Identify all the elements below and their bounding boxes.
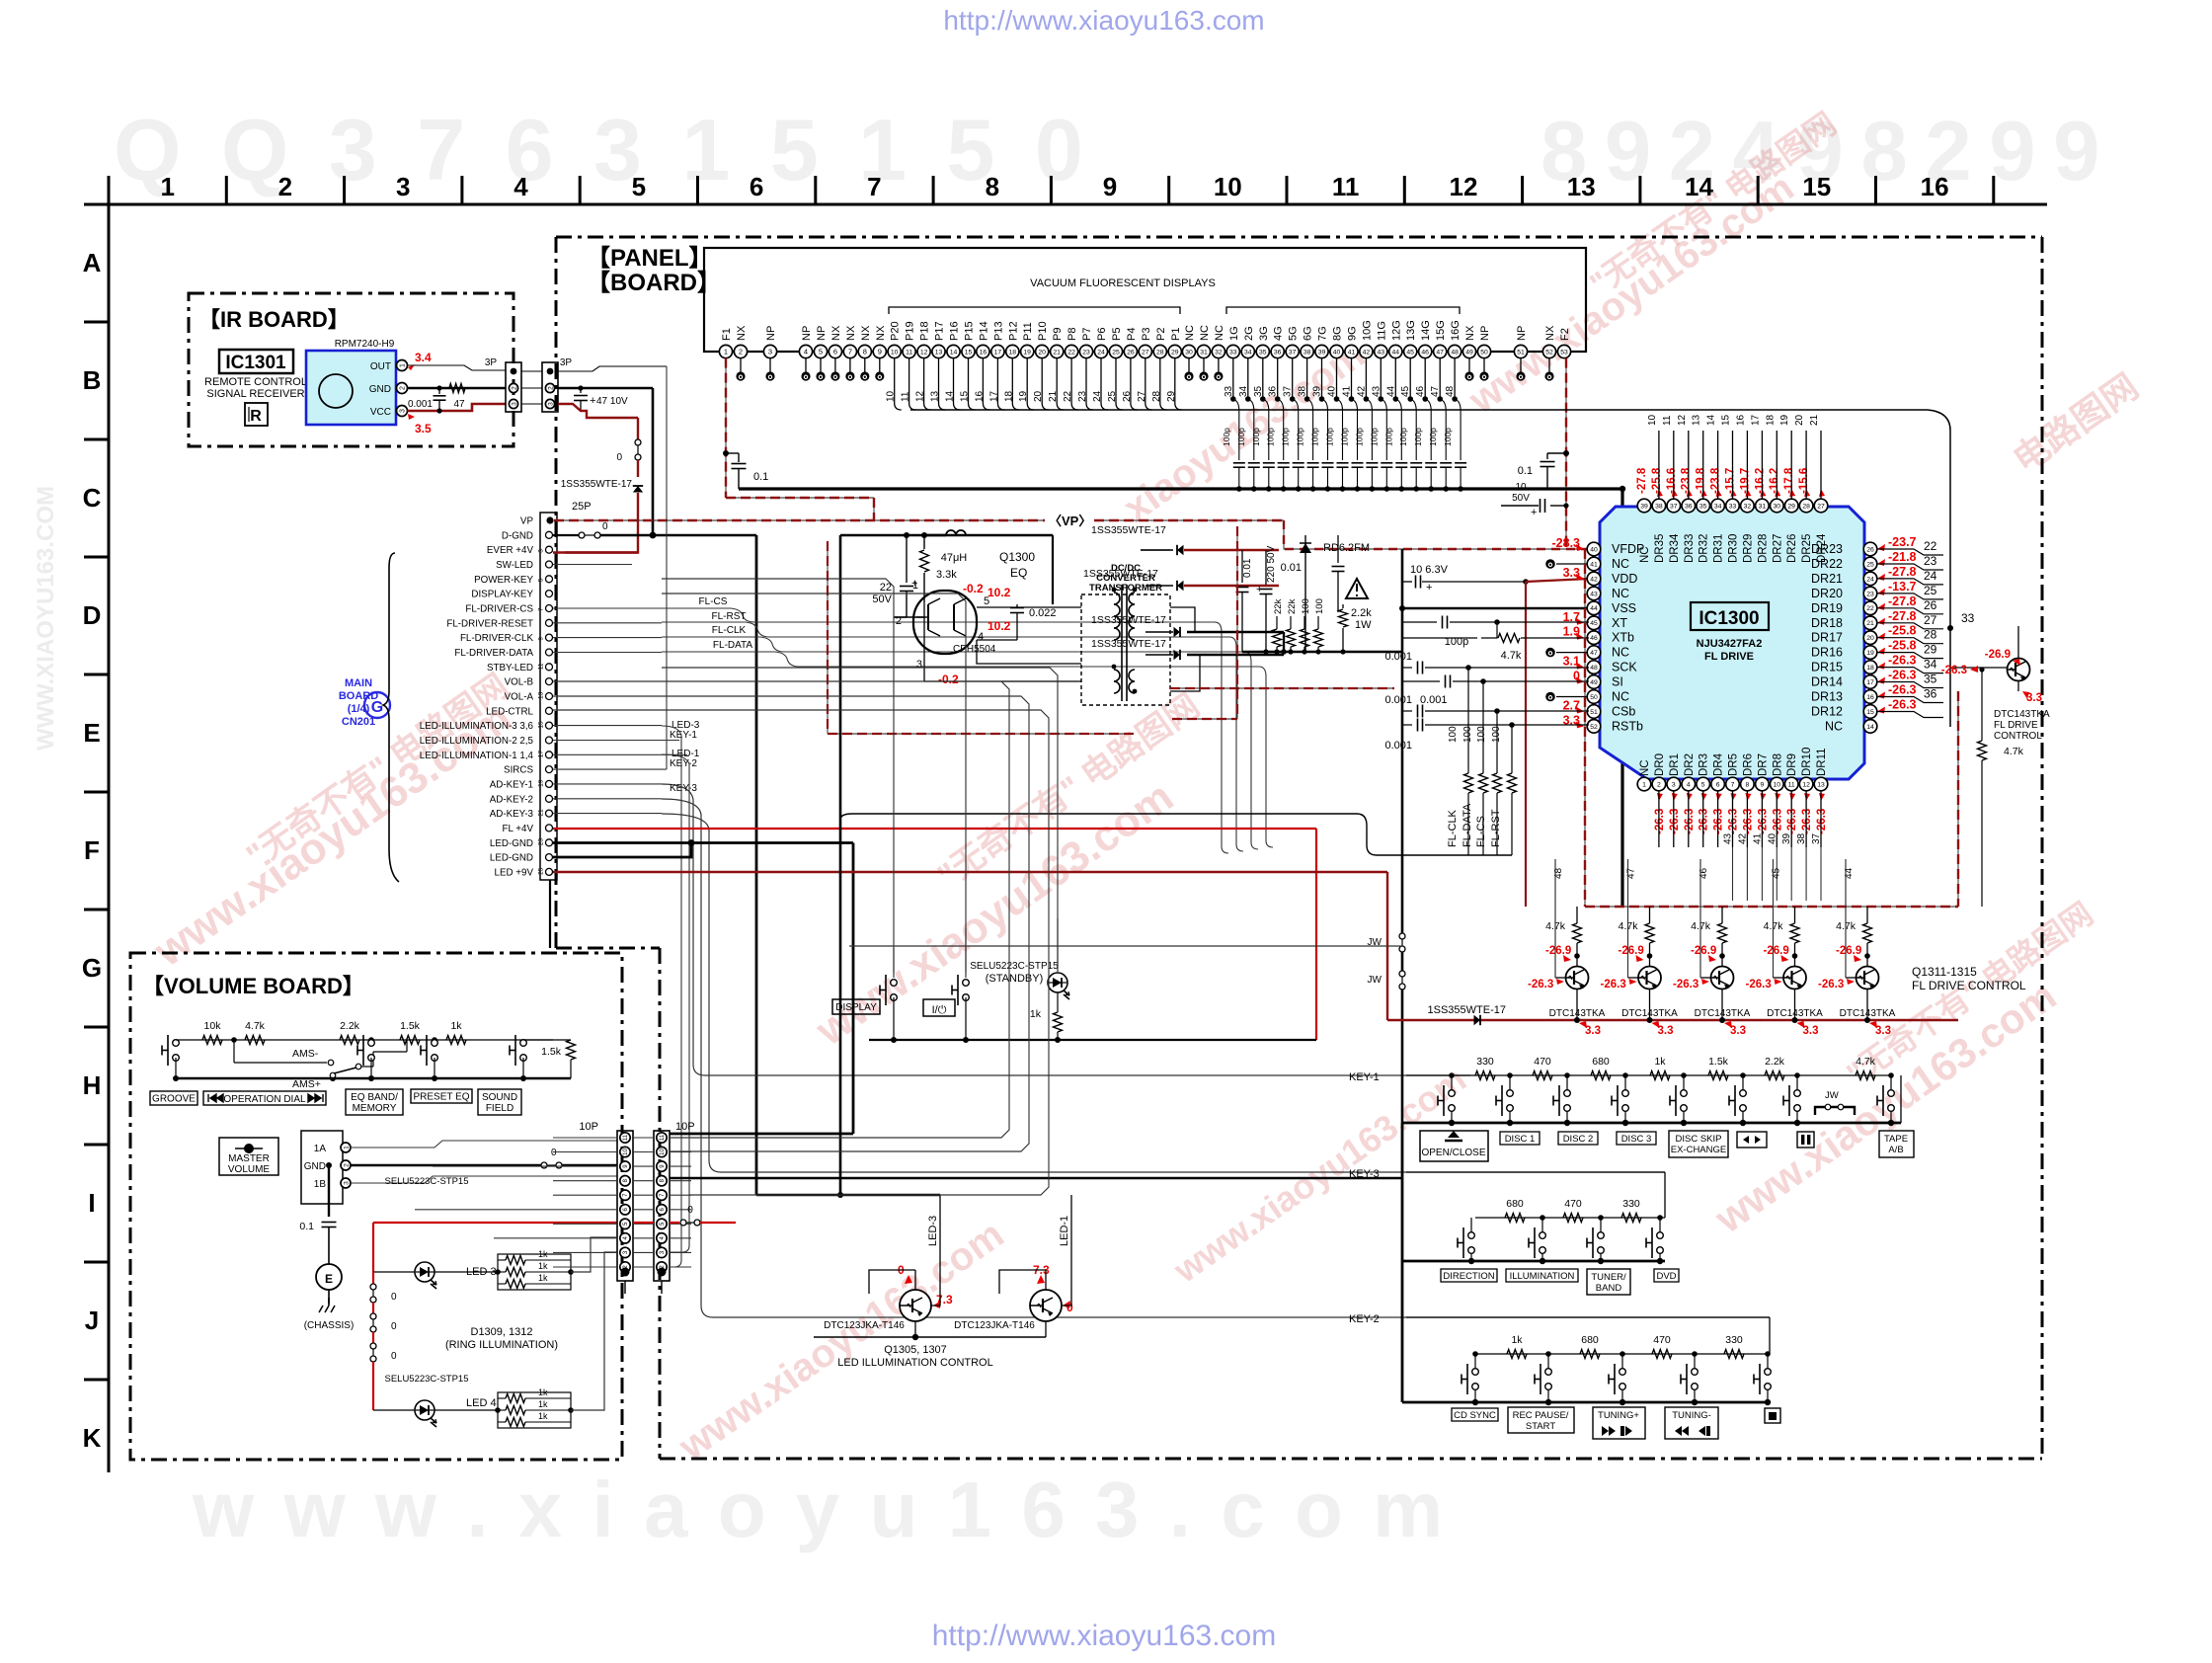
svg-text:-26.9: -26.9 xyxy=(1836,945,1861,957)
svg-text:LED-ILLUMINATION-1 1,4: LED-ILLUMINATION-1 1,4 xyxy=(420,751,534,761)
IC1301 pin 1 xyxy=(397,360,408,371)
svg-text:P15: P15 xyxy=(964,321,976,341)
svg-text:23: 23 xyxy=(1077,390,1088,402)
svg-text:NC: NC xyxy=(1214,325,1225,341)
svg-text:44: 44 xyxy=(1590,605,1598,612)
25P signal stub wires xyxy=(553,564,632,566)
svg-text:P20: P20 xyxy=(890,321,902,341)
svg-text:K: K xyxy=(83,1423,102,1453)
svg-text:22: 22 xyxy=(1067,349,1075,356)
svg-text:33: 33 xyxy=(1229,349,1237,356)
svg-text:42: 42 xyxy=(1590,576,1598,583)
svg-text:SCK: SCK xyxy=(1612,661,1637,674)
svg-text:STBY-LED: STBY-LED xyxy=(487,663,533,673)
earth E circle xyxy=(316,1264,342,1290)
svg-text:11: 11 xyxy=(1788,781,1795,788)
wire VDD dark red vertical xyxy=(1525,582,1527,907)
svg-text:WWW.XIAOYU163.COM: WWW.XIAOYU163.COM xyxy=(33,486,59,751)
svg-text:REMOTE CONTROL: REMOTE CONTROL xyxy=(204,376,307,388)
svg-text:6: 6 xyxy=(833,348,837,356)
svg-text:1G: 1G xyxy=(1228,326,1240,341)
svg-text:0.001: 0.001 xyxy=(408,399,433,410)
svg-text:-16.2: -16.2 xyxy=(1769,468,1780,494)
svg-text:42: 42 xyxy=(1356,385,1367,397)
svg-text:-26.3: -26.3 xyxy=(1728,809,1740,834)
svg-text:GROOVE: GROOVE xyxy=(152,1094,196,1105)
svg-text:AD-KEY-2: AD-KEY-2 xyxy=(490,794,533,805)
svg-text:DR20: DR20 xyxy=(1811,587,1843,600)
svg-text:7: 7 xyxy=(1731,781,1735,788)
svg-text:-26.3: -26.3 xyxy=(1801,809,1813,834)
KEY-1 buttons xyxy=(1449,1072,1455,1078)
dark red dashed bus 918 xyxy=(1584,549,1586,907)
svg-text:48: 48 xyxy=(1590,665,1598,672)
svg-text:46: 46 xyxy=(1415,385,1426,397)
wire secondary to VP dashed xyxy=(1170,687,1394,689)
svg-text:0.001: 0.001 xyxy=(1384,740,1412,752)
svg-text:3: 3 xyxy=(400,409,407,413)
svg-text:0.1: 0.1 xyxy=(299,1221,314,1232)
svg-text:FL DRIVE CONTROL: FL DRIVE CONTROL xyxy=(1912,979,2026,992)
svg-text:39: 39 xyxy=(1318,349,1326,356)
svg-text:-26.3: -26.3 xyxy=(1816,809,1828,834)
svg-text:14: 14 xyxy=(1706,414,1717,426)
svg-text:21: 21 xyxy=(1048,390,1059,402)
bus right vertical xyxy=(1949,431,1951,727)
svg-text:10G: 10G xyxy=(1361,320,1373,341)
AMS switch xyxy=(231,1037,237,1043)
svg-text:-26.3: -26.3 xyxy=(1713,809,1725,834)
svg-text:10: 10 xyxy=(886,390,897,402)
svg-text:4: 4 xyxy=(513,172,528,201)
svg-text:NC: NC xyxy=(1612,690,1629,704)
svg-text:P8: P8 xyxy=(1066,328,1078,341)
svg-text:19: 19 xyxy=(1018,390,1029,402)
svg-text:2.2k: 2.2k xyxy=(340,1020,360,1032)
dark red emitter bus 1033 xyxy=(1387,1019,1958,1021)
svg-text:10: 10 xyxy=(1515,482,1527,493)
master volume encoder xyxy=(301,1131,343,1204)
svg-text:100p: 100p xyxy=(1369,428,1379,446)
svg-text:-25.8: -25.8 xyxy=(1651,467,1663,494)
svg-text:J: J xyxy=(85,1306,99,1335)
svg-text:330: 330 xyxy=(1622,1198,1640,1210)
svg-text:FL-CLK: FL-CLK xyxy=(1447,809,1459,847)
svg-text:20: 20 xyxy=(1866,635,1874,642)
svg-text:220 50V: 220 50V xyxy=(1266,545,1277,583)
svg-text:D-GND: D-GND xyxy=(502,530,533,541)
svg-text:AMS+: AMS+ xyxy=(292,1078,321,1090)
svg-text:32: 32 xyxy=(1215,349,1223,356)
svg-text:IC1301: IC1301 xyxy=(225,353,286,373)
svg-text:-26.3: -26.3 xyxy=(1818,979,1844,990)
svg-text:20: 20 xyxy=(1038,349,1046,356)
svg-text:NJU3427FA2: NJU3427FA2 xyxy=(1697,638,1763,650)
svg-text:2: 2 xyxy=(278,172,292,201)
svg-text:DR4: DR4 xyxy=(1713,752,1725,776)
ruler left border xyxy=(108,176,111,1472)
svg-text:100p: 100p xyxy=(1354,428,1364,446)
svg-text:3: 3 xyxy=(343,1181,350,1185)
svg-text:AD-KEY-3: AD-KEY-3 xyxy=(490,809,534,820)
svg-text:41: 41 xyxy=(1752,832,1763,844)
KEY-2 buttons xyxy=(1472,1351,1478,1357)
svg-text:15: 15 xyxy=(538,721,545,729)
ruler ticks left xyxy=(84,321,109,324)
wire LED+9V vertical xyxy=(1386,872,1388,1020)
svg-text:NX: NX xyxy=(1464,325,1476,341)
svg-text:DR19: DR19 xyxy=(1811,601,1843,615)
svg-text:TAPE: TAPE xyxy=(1884,1134,1908,1145)
bus wire from VFD pins to IC1300 xyxy=(910,409,1928,411)
svg-text:DISC 2: DISC 2 xyxy=(1563,1134,1594,1145)
transistor Q1312 DTC143TKA xyxy=(1645,923,1654,943)
key label prev-next xyxy=(1737,1132,1767,1148)
svg-text:47 10V: 47 10V xyxy=(596,396,628,407)
svg-text:DTC143TKA: DTC143TKA xyxy=(1695,1008,1751,1019)
svg-text:P9: P9 xyxy=(1052,328,1064,341)
svg-text:-26.3: -26.3 xyxy=(1601,979,1626,990)
VFD pins xyxy=(719,345,732,357)
svg-text:0: 0 xyxy=(616,452,622,463)
wire 25P below connector xyxy=(549,880,551,948)
svg-text:10: 10 xyxy=(1774,781,1781,788)
svg-text:2G: 2G xyxy=(1243,326,1255,341)
svg-text:-26.3: -26.3 xyxy=(1654,809,1666,834)
key label DISC 2 xyxy=(1558,1132,1598,1145)
svg-text:DIRECTION: DIRECTION xyxy=(1443,1271,1494,1282)
svg-text:100: 100 xyxy=(1448,726,1459,743)
svg-text:1: 1 xyxy=(160,172,174,201)
transistor Q1314 DTC143TKA xyxy=(1790,923,1799,943)
transistor Q1300 CPH5504 xyxy=(913,591,977,654)
svg-text:DR1: DR1 xyxy=(1669,753,1681,776)
capacitor 0.001 rstb xyxy=(1402,724,1412,726)
svg-text:47: 47 xyxy=(1430,385,1441,397)
svg-text:0.1: 0.1 xyxy=(753,471,768,483)
svg-text:680: 680 xyxy=(1592,1056,1610,1068)
IC1301 designator box xyxy=(219,350,293,373)
svg-text:-26.3: -26.3 xyxy=(1888,669,1917,682)
svg-text:36: 36 xyxy=(1274,349,1282,356)
capacitor 0.1 right xyxy=(1547,452,1566,454)
svg-text:-26.3: -26.3 xyxy=(1786,809,1798,834)
svg-text:SW-LED: SW-LED xyxy=(496,560,533,571)
svg-text:1k: 1k xyxy=(1030,1008,1042,1020)
svg-text:4: 4 xyxy=(1687,781,1691,788)
svg-text:51: 51 xyxy=(1590,709,1598,716)
svg-text:10.2: 10.2 xyxy=(987,586,1011,599)
svg-text:VOL-A: VOL-A xyxy=(505,692,534,703)
svg-text:DISC 3: DISC 3 xyxy=(1621,1134,1652,1145)
svg-text:25P: 25P xyxy=(572,501,592,513)
svg-text:10: 10 xyxy=(891,349,899,356)
wire display-key to button xyxy=(662,594,966,973)
svg-text:10k: 10k xyxy=(204,1020,222,1032)
wire VP dashed from pin xyxy=(554,519,1045,521)
svg-text:36: 36 xyxy=(1268,385,1279,397)
svg-text:NX: NX xyxy=(845,325,857,341)
svg-text:AMS-: AMS- xyxy=(292,1048,319,1060)
svg-text:-26.3: -26.3 xyxy=(1888,683,1917,697)
svg-text:DR6: DR6 xyxy=(1742,753,1754,776)
svg-text:9G: 9G xyxy=(1347,326,1359,341)
svg-text:7: 7 xyxy=(848,348,852,356)
svg-text:LED ILLUMINATION CONTROL: LED ILLUMINATION CONTROL xyxy=(837,1357,993,1369)
red wire to LED3 xyxy=(373,1222,617,1224)
svg-text:-26.3: -26.3 xyxy=(1669,809,1681,834)
key label EQ BAND/MEMORY xyxy=(346,1089,403,1115)
svg-text:XTb: XTb xyxy=(1612,631,1634,645)
wire main gnd vertical xyxy=(1620,489,1623,907)
key label power xyxy=(923,999,955,1016)
svg-text:MASTER: MASTER xyxy=(228,1153,270,1164)
svg-text:P17: P17 xyxy=(934,321,946,341)
IC1300 right pins xyxy=(1863,542,1877,556)
svg-text:LED-GND: LED-GND xyxy=(490,853,533,864)
svg-text:FL-DRIVER-CLK: FL-DRIVER-CLK xyxy=(460,633,533,644)
svg-text:8G: 8G xyxy=(1332,326,1344,341)
svg-text:(RING ILLUMINATION): (RING ILLUMINATION) xyxy=(445,1339,558,1351)
svg-text:I/⏻: I/⏻ xyxy=(932,1004,947,1016)
svg-text:100p: 100p xyxy=(1443,428,1453,446)
svg-text:4: 4 xyxy=(804,348,808,356)
svg-text:KEY-2: KEY-2 xyxy=(1349,1313,1380,1325)
svg-text:18: 18 xyxy=(1003,390,1014,402)
svg-text:19: 19 xyxy=(1866,650,1874,657)
svg-text:20: 20 xyxy=(1794,414,1805,426)
svg-text:33: 33 xyxy=(1961,611,1975,625)
svg-text:CSb: CSb xyxy=(1612,705,1635,719)
svg-text:SELU5223C-STP15: SELU5223C-STP15 xyxy=(970,961,1059,972)
svg-text:P14: P14 xyxy=(978,321,989,341)
wire LED-GND thick xyxy=(553,841,853,844)
svg-text:DTC143TKA: DTC143TKA xyxy=(1621,1008,1678,1019)
wire stby-led to LED xyxy=(662,668,1058,968)
svg-text:【BOARD】: 【BOARD】 xyxy=(587,270,721,296)
svg-text:27: 27 xyxy=(1817,503,1825,510)
zener RD6.2FM xyxy=(1304,535,1306,543)
svg-text:26: 26 xyxy=(1127,349,1135,356)
svg-text:8: 8 xyxy=(1746,781,1750,788)
svg-text:1k: 1k xyxy=(538,1387,548,1397)
svg-text:SELU5223C-STP15: SELU5223C-STP15 xyxy=(384,1176,468,1187)
wire 1B xyxy=(351,1176,617,1183)
svg-text:3.3: 3.3 xyxy=(1803,1025,1819,1037)
panel board border left upper xyxy=(555,237,558,948)
wire D-GND vertical thick xyxy=(755,535,758,1195)
svg-text:-16.2: -16.2 xyxy=(1754,468,1766,494)
IC1301 body RPM7240-H9 xyxy=(306,351,396,425)
svg-text:100p: 100p xyxy=(1340,428,1350,446)
svg-text:A/B: A/B xyxy=(1888,1145,1903,1155)
svg-text:B: B xyxy=(83,365,102,395)
svg-text:10: 10 xyxy=(660,1148,666,1155)
svg-text:29: 29 xyxy=(1171,349,1179,356)
svg-text:12: 12 xyxy=(1450,172,1478,201)
svg-text:P6: P6 xyxy=(1096,328,1108,341)
svg-text:4.7k: 4.7k xyxy=(2004,746,2024,757)
svg-text:P19: P19 xyxy=(905,321,916,341)
svg-text:VACUUM FLUORESCENT DISPLAYS: VACUUM FLUORESCENT DISPLAYS xyxy=(1030,277,1216,289)
wire gnd down xyxy=(328,1165,330,1217)
svg-text:2: 2 xyxy=(511,386,517,390)
svg-text:FL-CS: FL-CS xyxy=(1475,816,1487,847)
svg-text:DR21: DR21 xyxy=(1811,572,1843,586)
svg-text:1SS355WTE-17: 1SS355WTE-17 xyxy=(1091,614,1166,626)
svg-text:1: 1 xyxy=(724,348,728,356)
svg-text:11: 11 xyxy=(623,1134,629,1141)
svg-text:-26.9: -26.9 xyxy=(1691,945,1716,957)
svg-text:25: 25 xyxy=(1866,561,1874,568)
chassis ground xyxy=(328,1290,330,1304)
svg-text:1: 1 xyxy=(912,580,918,592)
svg-text:JW: JW xyxy=(1825,1090,1839,1101)
svg-text:19: 19 xyxy=(1779,414,1790,426)
svg-text:-26.3: -26.3 xyxy=(1528,979,1553,990)
svg-text:VCC: VCC xyxy=(370,407,391,418)
svg-text:1k: 1k xyxy=(1654,1056,1666,1068)
ruler top line xyxy=(84,203,2047,206)
svg-text:LED-GND: LED-GND xyxy=(490,838,533,849)
wire supply spine 851 xyxy=(839,535,842,820)
svg-text:(STANDBY): (STANDBY) xyxy=(986,973,1043,985)
svg-text:40: 40 xyxy=(1767,832,1777,844)
wire red to panel xyxy=(700,1222,736,1224)
svg-text:Q1305, 1307: Q1305, 1307 xyxy=(884,1344,947,1356)
svg-text:C: C xyxy=(83,483,102,513)
key label DVD xyxy=(1654,1269,1679,1282)
svg-text:VSS: VSS xyxy=(1612,601,1636,615)
svg-text:25: 25 xyxy=(538,867,545,875)
wire VDD to pin42 xyxy=(1526,579,1589,582)
svg-text:100p: 100p xyxy=(1296,428,1305,446)
svg-text:33: 33 xyxy=(1729,503,1737,510)
svg-text:NX: NX xyxy=(830,325,842,341)
svg-text:5G: 5G xyxy=(1288,326,1300,341)
svg-text:16: 16 xyxy=(1735,414,1746,426)
svg-text:NP: NP xyxy=(1479,326,1491,341)
key label SOUND FIELD xyxy=(478,1089,521,1115)
wire black main vertical 1420 xyxy=(1401,549,1404,933)
svg-text:9: 9 xyxy=(1103,172,1117,201)
svg-text:38: 38 xyxy=(1655,503,1663,510)
svg-text:D1309, 1312: D1309, 1312 xyxy=(471,1326,533,1338)
svg-text:5: 5 xyxy=(632,172,646,201)
wire LED3 to 10P xyxy=(571,1237,617,1272)
transistor Q1315 DTC143TKA xyxy=(1863,923,1872,943)
PRESET EQ button xyxy=(432,1037,437,1043)
svg-text:FIELD: FIELD xyxy=(486,1103,513,1114)
svg-text:3: 3 xyxy=(547,402,554,406)
svg-text:100p: 100p xyxy=(1310,428,1320,446)
svg-text:470: 470 xyxy=(1653,1334,1671,1346)
svg-text:3P: 3P xyxy=(560,357,573,368)
svg-text:0.001: 0.001 xyxy=(1420,694,1448,706)
wire D-GND with 0 jumper xyxy=(553,534,579,536)
svg-text:-26.3: -26.3 xyxy=(1684,809,1696,834)
svg-text:3: 3 xyxy=(396,172,410,201)
svg-text:100p: 100p xyxy=(1383,428,1393,446)
svg-text:CD SYNC: CD SYNC xyxy=(1454,1410,1496,1421)
svg-text:F: F xyxy=(84,835,100,865)
left thick vertical key matrix xyxy=(1401,1123,1404,1402)
svg-text:-26.3: -26.3 xyxy=(1757,809,1769,834)
svg-text:7G: 7G xyxy=(1317,326,1329,341)
svg-text:-26.9: -26.9 xyxy=(1764,945,1789,957)
diode 1SS355WTE-17 xyxy=(637,460,639,477)
svg-text:19: 19 xyxy=(1023,349,1031,356)
svg-text:DR27: DR27 xyxy=(1772,534,1783,563)
svg-text:3P: 3P xyxy=(485,357,498,368)
svg-text:A: A xyxy=(83,248,102,277)
button power xyxy=(957,975,959,1005)
svg-text:1B: 1B xyxy=(314,1179,327,1190)
svg-text:【VOLUME BOARD】: 【VOLUME BOARD】 xyxy=(142,974,364,998)
svg-text:15: 15 xyxy=(1721,414,1732,426)
svg-text:22k: 22k xyxy=(1287,598,1298,614)
svg-text:RSTb: RSTb xyxy=(1612,719,1643,733)
svg-text:25: 25 xyxy=(1924,584,1937,597)
svg-text:-27.8: -27.8 xyxy=(1888,609,1917,623)
svg-text:NP: NP xyxy=(1516,326,1528,341)
svg-text:50V: 50V xyxy=(1512,493,1530,504)
svg-text:P2: P2 xyxy=(1155,328,1167,341)
svg-text:-26.3: -26.3 xyxy=(1772,809,1783,834)
svg-text:VP: VP xyxy=(520,516,534,527)
svg-text:NC: NC xyxy=(1612,557,1629,571)
node G circle blue xyxy=(364,692,390,718)
svg-text:P16: P16 xyxy=(949,321,961,341)
svg-text:10P: 10P xyxy=(579,1121,598,1133)
wire VCC dark red xyxy=(408,404,507,411)
IC1301 pin 3 xyxy=(397,406,408,417)
wire VOL-B route xyxy=(553,681,1009,1138)
VFD displays box xyxy=(704,248,1586,352)
svg-text:100p: 100p xyxy=(1281,428,1291,446)
svg-text:10P: 10P xyxy=(675,1121,695,1133)
resistor 3.3k xyxy=(923,535,925,549)
svg-text:2.2k: 2.2k xyxy=(1351,607,1372,619)
svg-text:TUNING-: TUNING- xyxy=(1672,1410,1711,1421)
wire OUT xyxy=(408,365,507,370)
panel board border top xyxy=(556,236,2042,239)
ruler ticks top xyxy=(108,176,111,204)
svg-text:25: 25 xyxy=(1112,349,1120,356)
svg-text:35: 35 xyxy=(1259,349,1267,356)
svg-text:48: 48 xyxy=(1451,349,1459,356)
svg-text:P11: P11 xyxy=(1022,322,1034,341)
svg-text:P12: P12 xyxy=(1007,321,1019,341)
svg-text:2: 2 xyxy=(547,386,554,390)
svg-text:GND: GND xyxy=(304,1161,326,1172)
svg-text:G: G xyxy=(371,699,383,716)
svg-text:1A: 1A xyxy=(314,1144,327,1154)
svg-text:0.001: 0.001 xyxy=(1384,694,1412,706)
svg-text:34: 34 xyxy=(1924,658,1937,672)
svg-text:P18: P18 xyxy=(919,321,931,341)
svg-text:10: 10 xyxy=(1647,414,1658,426)
svg-text:20: 20 xyxy=(1033,390,1044,402)
svg-text:12: 12 xyxy=(1677,414,1688,426)
svg-text:RPM7240-H9: RPM7240-H9 xyxy=(335,339,395,350)
IC1300 bottom pins xyxy=(1637,777,1651,791)
svg-text:LED-1: LED-1 xyxy=(671,749,700,759)
svg-text:+: + xyxy=(1531,507,1537,518)
svg-text:1SS355WTE-17: 1SS355WTE-17 xyxy=(1083,568,1158,580)
IC1301 pin 2 xyxy=(397,383,408,394)
svg-text:6G: 6G xyxy=(1303,326,1314,341)
